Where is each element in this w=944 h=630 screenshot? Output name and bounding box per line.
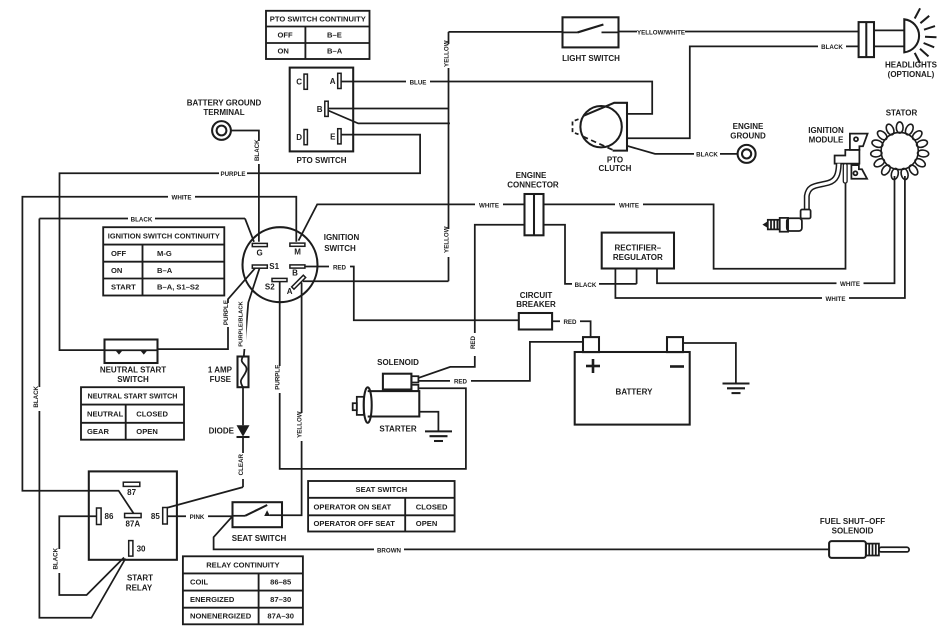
svg-text:RED: RED — [470, 335, 477, 349]
svg-text:BLACK: BLACK — [52, 547, 59, 569]
PTO switch — [290, 68, 354, 165]
wire: starter to ground — [419, 412, 438, 432]
svg-text:NEUTRAL START: NEUTRAL START — [100, 366, 166, 375]
wire: white connector to ignition module — [544, 181, 846, 269]
svg-text:87: 87 — [127, 488, 136, 497]
svg-text:A: A — [330, 77, 336, 86]
wire: yellow A to seat switch — [282, 283, 305, 516]
svg-text:RECTIFIER–: RECTIFIER– — [614, 243, 661, 252]
svg-text:RELAY CONTINUITY: RELAY CONTINUITY — [206, 561, 279, 570]
wire: pink 85 to seat switch — [167, 513, 232, 522]
starter — [353, 387, 420, 433]
svg-text:RED: RED — [454, 379, 468, 386]
table: neutral start switch — [81, 387, 184, 440]
table: ignition switch continuity — [103, 227, 224, 295]
svg-text:ENGINE: ENGINE — [733, 122, 764, 131]
table: PTO switch continuity — [266, 11, 370, 59]
wire: yellow feed to light switch — [449, 31, 563, 33]
headlights lamp — [874, 8, 938, 79]
svg-text:BATTERY GROUND: BATTERY GROUND — [187, 99, 262, 108]
svg-text:DIODE: DIODE — [209, 426, 235, 435]
light switch — [562, 17, 620, 63]
svg-text:IGNITION SWITCH CONTINUITY: IGNITION SWITCH CONTINUITY — [108, 232, 220, 241]
svg-text:S1: S1 — [269, 262, 279, 271]
svg-text:BLACK: BLACK — [131, 216, 153, 223]
svg-text:85: 85 — [151, 512, 160, 521]
svg-text:WHITE: WHITE — [172, 195, 192, 202]
svg-text:87A: 87A — [125, 520, 140, 529]
svg-text:ON: ON — [111, 266, 122, 275]
svg-text:86–85: 86–85 — [270, 578, 292, 587]
wire: blue PTO A to clutch — [341, 78, 652, 114]
svg-text:STATOR: STATOR — [886, 109, 918, 118]
battery — [575, 337, 690, 425]
svg-text:IGNITION: IGNITION — [324, 233, 360, 242]
wire: battery negative to ground — [683, 343, 736, 384]
circuit breaker — [516, 291, 556, 330]
svg-text:LIGHT SWITCH: LIGHT SWITCH — [562, 54, 620, 63]
svg-text:SEAT SWITCH: SEAT SWITCH — [356, 485, 408, 494]
wire: black rail to relay 30 — [33, 219, 126, 618]
svg-text:(OPTIONAL): (OPTIONAL) — [888, 70, 935, 79]
ground: starter — [425, 431, 452, 441]
wire: PTO B feed — [328, 109, 450, 124]
wire: brown to fuel shut-off solenoid — [214, 516, 830, 554]
svg-text:BLACK: BLACK — [696, 152, 718, 159]
svg-text:MODULE: MODULE — [809, 135, 844, 144]
svg-text:B–A: B–A — [157, 266, 173, 275]
svg-text:C: C — [296, 78, 302, 87]
svg-text:REGULATOR: REGULATOR — [613, 253, 663, 262]
svg-text:B–A: B–A — [327, 47, 343, 56]
svg-text:B: B — [317, 105, 323, 114]
svg-text:ENERGIZED: ENERGIZED — [190, 595, 235, 604]
neutral start switch — [100, 340, 166, 384]
svg-text:B: B — [292, 268, 298, 277]
wire: white M to engine connector — [299, 201, 525, 241]
svg-text:G: G — [256, 249, 262, 258]
svg-text:BLACK: BLACK — [575, 282, 597, 289]
svg-text:A: A — [287, 287, 293, 296]
wire: A to yellow feed — [303, 280, 449, 282]
wire: black relay 86 loop — [52, 516, 124, 595]
wire: black connector to rectifier — [544, 225, 637, 289]
svg-text:86: 86 — [105, 512, 114, 521]
wire: black to ignition G — [39, 215, 254, 242]
svg-text:START: START — [127, 574, 153, 583]
wire: fuse to diode — [242, 387, 244, 425]
rectifier-regulator — [602, 233, 674, 269]
svg-text:D: D — [296, 133, 302, 142]
fuel shut-off solenoid — [820, 517, 909, 558]
seat switch — [232, 502, 287, 543]
svg-text:M-G: M-G — [157, 249, 172, 258]
diode — [209, 425, 250, 437]
solenoid — [377, 358, 419, 391]
svg-text:START: START — [111, 283, 136, 292]
svg-text:CIRCUIT: CIRCUIT — [520, 291, 553, 300]
battery ground terminal — [187, 99, 262, 140]
svg-text:B–A, S1–S2: B–A, S1–S2 — [157, 283, 199, 292]
svg-text:PTO SWITCH CONTINUITY: PTO SWITCH CONTINUITY — [270, 14, 366, 23]
svg-text:PINK: PINK — [190, 514, 205, 521]
spark plug and lead — [762, 164, 847, 232]
svg-text:WHITE: WHITE — [619, 202, 639, 209]
svg-text:CLOSED: CLOSED — [136, 409, 168, 418]
svg-text:RELAY: RELAY — [126, 584, 153, 593]
svg-text:NEUTRAL: NEUTRAL — [87, 409, 124, 418]
wire: purple S2 to solenoid — [275, 281, 466, 469]
stator — [870, 109, 929, 181]
wire: purple PTO E to neutral start switch — [60, 135, 421, 351]
svg-text:WHITE: WHITE — [840, 281, 860, 288]
svg-text:OPEN: OPEN — [416, 519, 438, 528]
headlight connector — [859, 22, 874, 57]
svg-text:M: M — [294, 248, 301, 257]
svg-text:WHITE: WHITE — [826, 296, 846, 303]
svg-text:SOLENOID: SOLENOID — [377, 358, 419, 367]
svg-text:SEAT SWITCH: SEAT SWITCH — [232, 534, 287, 543]
svg-text:BREAKER: BREAKER — [516, 300, 556, 309]
svg-text:TERMINAL: TERMINAL — [203, 108, 244, 117]
svg-text:IGNITION: IGNITION — [808, 126, 844, 135]
wire: white M to relay 87A — [22, 193, 296, 514]
svg-text:87A–30: 87A–30 — [267, 612, 294, 621]
svg-text:BROWN: BROWN — [377, 547, 402, 554]
wire: red B to circuit breaker — [305, 263, 519, 320]
svg-text:BLACK: BLACK — [33, 385, 40, 407]
wire: black battery ground to G — [231, 131, 263, 242]
svg-text:WHITE: WHITE — [479, 202, 499, 209]
start relay — [89, 471, 177, 592]
svg-text:OPERATOR ON SEAT: OPERATOR ON SEAT — [314, 502, 392, 511]
svg-text:PTO SWITCH: PTO SWITCH — [296, 156, 346, 165]
svg-text:S2: S2 — [265, 283, 275, 292]
wire: rectifier black pin — [636, 269, 638, 284]
svg-text:COIL: COIL — [190, 578, 209, 587]
svg-text:FUEL SHUT–OFF: FUEL SHUT–OFF — [820, 517, 885, 526]
svg-text:OFF: OFF — [111, 249, 127, 258]
engine ground — [627, 122, 766, 163]
svg-text:NEUTRAL START SWITCH: NEUTRAL START SWITCH — [88, 392, 178, 401]
svg-text:CLOSED: CLOSED — [416, 502, 448, 511]
svg-text:BATTERY: BATTERY — [616, 387, 654, 396]
svg-text:STARTER: STARTER — [379, 424, 416, 433]
svg-text:1 AMP: 1 AMP — [208, 365, 233, 374]
svg-text:SOLENOID: SOLENOID — [832, 527, 874, 536]
wire: white rectifier to stator lower — [615, 176, 905, 303]
svg-text:PURPLE: PURPLE — [275, 365, 282, 390]
wire: black headlight ground — [627, 42, 859, 138]
svg-text:PURPLE: PURPLE — [223, 300, 230, 325]
svg-text:E: E — [330, 132, 336, 141]
svg-text:SWITCH: SWITCH — [324, 244, 356, 253]
wire: yellow/white to headlights — [619, 28, 859, 37]
ignition module — [808, 126, 867, 179]
PTO clutch — [573, 103, 632, 173]
svg-text:30: 30 — [137, 545, 146, 554]
svg-text:ENGINE: ENGINE — [516, 171, 547, 180]
svg-text:PURPLE/BLACK: PURPLE/BLACK — [238, 300, 244, 346]
svg-text:HEADLIGHTS: HEADLIGHTS — [885, 61, 938, 70]
svg-text:OPEN: OPEN — [136, 427, 158, 436]
svg-text:FUSE: FUSE — [210, 375, 232, 384]
svg-text:GEAR: GEAR — [87, 427, 109, 436]
svg-text:RED: RED — [563, 319, 577, 326]
svg-text:CONNECTOR: CONNECTOR — [507, 180, 559, 189]
svg-text:OFF: OFF — [278, 31, 294, 40]
table: relay continuity — [183, 556, 303, 624]
wire: red connector to solenoid — [418, 225, 524, 378]
svg-text:YELLOW: YELLOW — [297, 411, 304, 438]
svg-text:CLUTCH: CLUTCH — [599, 164, 632, 173]
svg-text:OPERATOR OFF SEAT: OPERATOR OFF SEAT — [314, 519, 396, 528]
svg-text:SWITCH: SWITCH — [117, 375, 149, 384]
engine connector — [507, 171, 559, 235]
wire: purple S1 to neutral start switch — [158, 268, 256, 349]
svg-text:NONENERGIZED: NONENERGIZED — [190, 612, 252, 621]
svg-text:YELLOW/WHITE: YELLOW/WHITE — [637, 30, 685, 37]
svg-text:BLACK: BLACK — [254, 139, 261, 161]
fuse 1 amp — [208, 357, 249, 388]
wire: red solenoid to battery plus — [418, 342, 583, 386]
svg-text:PURPLE: PURPLE — [220, 171, 245, 178]
svg-text:ON: ON — [278, 47, 289, 56]
svg-text:BLUE: BLUE — [410, 79, 427, 86]
wire: red breaker to battery — [552, 318, 591, 338]
svg-text:GROUND: GROUND — [730, 132, 766, 141]
svg-text:CLEAR: CLEAR — [238, 454, 245, 476]
wire: clear diode to relay 85 — [165, 437, 247, 509]
wire: white rectifier to stator upper — [657, 176, 895, 288]
ignition switch — [243, 227, 360, 302]
svg-text:87–30: 87–30 — [270, 595, 291, 604]
svg-text:YELLOW: YELLOW — [444, 226, 451, 253]
table: seat switch — [308, 481, 455, 532]
wire: yellow feed vertical — [444, 32, 453, 281]
svg-text:RED: RED — [333, 264, 347, 271]
svg-text:YELLOW: YELLOW — [444, 40, 451, 67]
svg-text:B–E: B–E — [327, 31, 342, 40]
ground: battery — [723, 384, 750, 394]
wire: purple/black S1 to fuse — [238, 268, 259, 356]
svg-text:BLACK: BLACK — [821, 44, 843, 51]
